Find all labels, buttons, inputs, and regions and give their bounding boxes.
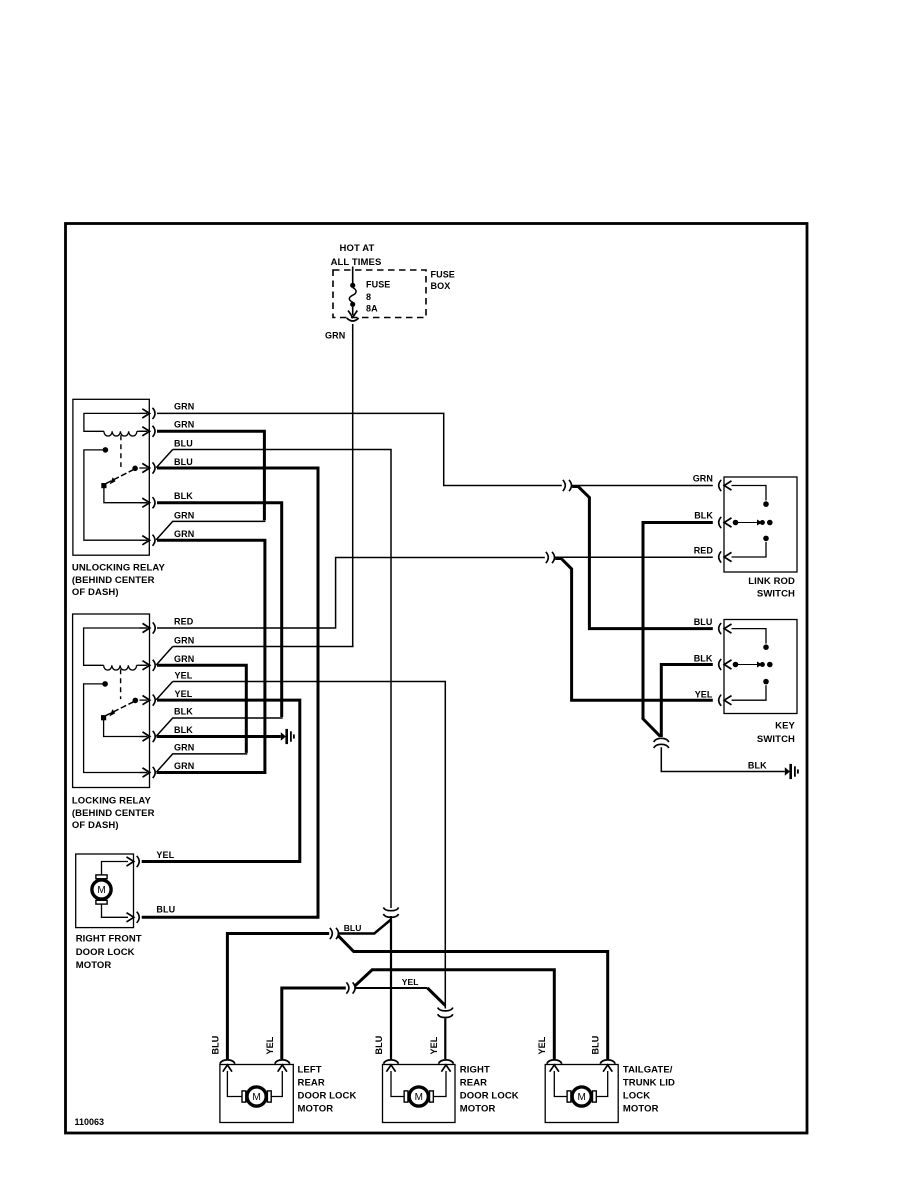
svg-text:DOOR LOCK: DOOR LOCK [460, 1091, 519, 1102]
svg-text:BLU: BLU [694, 617, 713, 627]
svg-text:GRN: GRN [325, 331, 345, 341]
svg-text:RED: RED [174, 616, 194, 626]
label GRN link rod [693, 474, 713, 484]
wire YEL connector C8 to tailgate motor (thick) [355, 970, 555, 1059]
wire RED lock pin1 to connector C2 [157, 558, 545, 629]
svg-text:FUSE: FUSE [431, 270, 455, 280]
wire BLK unlock pin4 to lock pin4 thin [156, 503, 283, 737]
wire BLU connector C5 to right rear motor [390, 916, 392, 1059]
svg-text:BLU: BLU [174, 438, 193, 448]
svg-text:BLK: BLK [748, 760, 767, 770]
label BLU key switch [694, 617, 713, 627]
label BLU right rear (vertical) [374, 1036, 384, 1055]
label BLK link rod [694, 511, 713, 521]
right rear door lock motor M3 [383, 1060, 456, 1123]
svg-text:BLK: BLK [174, 491, 193, 501]
svg-text:UNLOCKING RELAY: UNLOCKING RELAY [72, 563, 166, 574]
locking relay K2 [73, 614, 156, 788]
svg-text:M: M [97, 885, 105, 896]
svg-text:YEL: YEL [429, 1036, 439, 1054]
tailgate trunk lid lock motor M4 [545, 1060, 618, 1123]
connector C5 (vertical, BLU) [383, 907, 398, 917]
wire BLU unlock pin3 thin to rear motors [156, 450, 391, 909]
svg-text:GRN: GRN [174, 742, 194, 752]
wire YEL thin from connector C8 east [354, 987, 427, 989]
label GRN unlock pin2 [174, 419, 194, 429]
svg-text:HOT AT: HOT AT [340, 243, 375, 254]
left rear door lock motor M2 [220, 1060, 293, 1123]
wire BLK link rod switch to connector C3 [643, 523, 713, 737]
right front door lock motor M1 [76, 854, 140, 928]
svg-text:KEY: KEY [775, 721, 795, 732]
wire BLU unlock pin3 thick to right front motor [142, 468, 318, 917]
svg-text:TRUNK LID: TRUNK LID [623, 1078, 675, 1089]
svg-text:MOTOR: MOTOR [76, 960, 112, 971]
svg-text:YEL: YEL [175, 689, 193, 699]
svg-text:YEL: YEL [537, 1036, 547, 1054]
svg-text:8: 8 [366, 292, 371, 302]
svg-text:OF DASH): OF DASH) [72, 587, 119, 598]
svg-text:M: M [578, 1092, 586, 1103]
svg-text:BLK: BLK [694, 511, 713, 521]
border frame [66, 224, 808, 1134]
wire YEL lock pin3 thin to rear motors [156, 682, 445, 1009]
label BLU at connector C6 [344, 923, 362, 933]
label BLK key switch [694, 654, 713, 664]
label BLU left rear (vertical) [210, 1036, 220, 1055]
svg-text:BLU: BLU [210, 1036, 220, 1055]
connector C6 (BLU) [330, 928, 339, 939]
label YEL lock pin3 thick [175, 689, 193, 699]
svg-text:YEL: YEL [402, 977, 419, 987]
ground G2 [785, 764, 799, 779]
wire BLU connector C6 to tailgate motor (thick) [338, 935, 608, 1059]
svg-text:LOCK: LOCK [623, 1091, 650, 1102]
svg-text:ALL TIMES: ALL TIMES [331, 257, 382, 268]
svg-text:OF DASH): OF DASH) [72, 820, 119, 831]
label YEL key switch [695, 690, 713, 700]
label YEL right front motor [156, 850, 174, 860]
svg-text:MOTOR: MOTOR [298, 1103, 334, 1114]
svg-text:LINK ROD: LINK ROD [748, 576, 795, 587]
wire BLK lock pin4 thick to ground [157, 735, 281, 738]
svg-text:RIGHT: RIGHT [460, 1065, 490, 1076]
label LINK ROD SWITCH [748, 576, 795, 600]
label GRN unlock pin5 thin [174, 510, 194, 520]
connector C8 (YEL) [346, 982, 355, 993]
link rod switch S1 [719, 477, 797, 572]
svg-text:REAR: REAR [298, 1078, 325, 1089]
svg-text:YEL: YEL [175, 670, 193, 680]
wire YEL lock pin3 thick to right front motor [142, 700, 300, 861]
connector C3 (vertical, BLK) [654, 738, 669, 748]
svg-text:YEL: YEL [156, 850, 174, 860]
label HOT AT ALL TIMES [331, 243, 382, 268]
label FUSE BOX [431, 270, 455, 292]
wire hot feed into fuse [352, 267, 354, 284]
label BLU right front motor [156, 905, 175, 915]
label RIGHT FRONT DOOR LOCK MOTOR [76, 934, 142, 972]
svg-text:GRN: GRN [174, 654, 194, 664]
label BLU tailgate (vertical) [591, 1036, 601, 1055]
wire BLK key switch to connector C3 [661, 665, 713, 738]
label RED lock pin1 [174, 616, 194, 626]
svg-text:LOCKING RELAY: LOCKING RELAY [72, 796, 152, 807]
svg-text:RIGHT FRONT: RIGHT FRONT [76, 934, 142, 945]
svg-text:GRN: GRN [174, 529, 194, 539]
svg-text:BLU: BLU [174, 457, 193, 467]
svg-text:MOTOR: MOTOR [623, 1103, 659, 1114]
label GRN lock pin2 thin [174, 635, 194, 645]
label BLU unlock pin3 thick [174, 457, 193, 467]
fuse output arrow [348, 307, 357, 318]
label LEFT REAR DOOR LOCK MOTOR [298, 1065, 357, 1115]
svg-text:BLK: BLK [174, 706, 193, 716]
fuse box (dashed) [333, 270, 426, 318]
svg-text:BLK: BLK [174, 725, 193, 735]
key switch S2 [719, 620, 797, 714]
wire YEL connector C7 to right rear motor [444, 1019, 446, 1060]
wire BLU connector C6 to left rear motor [227, 934, 329, 1060]
connector C1 [563, 480, 572, 491]
wire BLU branch to connector C6 [338, 920, 391, 934]
svg-text:GRN: GRN [174, 761, 194, 771]
label GRN lock pin5 thin [174, 742, 194, 752]
connector at fuse box exit [347, 318, 359, 321]
svg-text:BLU: BLU [374, 1036, 384, 1055]
unlocking relay K1 [73, 399, 155, 555]
label RIGHT REAR DOOR LOCK MOTOR [460, 1065, 519, 1115]
wire GRN unlock pin1 to connector C1 [157, 413, 562, 485]
label YEL lock pin3 thin [175, 670, 193, 680]
svg-text:M: M [415, 1092, 423, 1103]
label YEL right rear (vertical) [429, 1036, 439, 1054]
label RED link rod [694, 545, 714, 555]
svg-text:DOOR LOCK: DOOR LOCK [76, 947, 135, 958]
svg-text:LEFT: LEFT [298, 1065, 322, 1076]
label YEL tailgate (vertical) [537, 1036, 547, 1054]
label YEL at connector C8 [402, 977, 419, 987]
label BLK lock pin4 thick [174, 725, 193, 735]
label GRN lock pin5 thick [174, 761, 194, 771]
label BLU unlock pin3 thin [174, 438, 193, 448]
svg-text:(BEHIND CENTER: (BEHIND CENTER [72, 575, 155, 586]
svg-text:MOTOR: MOTOR [460, 1103, 496, 1114]
wire GRN unlock pin5 thick to lock pin5 thick [157, 540, 265, 772]
svg-text:RED: RED [694, 545, 714, 555]
svg-text:GRN: GRN [174, 510, 194, 520]
wire GRN lock pin2 thick to lock pin5 thin [156, 665, 247, 772]
svg-text:SWITCH: SWITCH [757, 734, 795, 745]
wire BLK connector C3 to ground G2 [661, 747, 785, 771]
svg-text:REAR: REAR [460, 1078, 487, 1089]
svg-text:YEL: YEL [695, 690, 713, 700]
svg-text:M: M [252, 1092, 260, 1103]
svg-text:BLU: BLU [156, 905, 175, 915]
connector C2 [546, 552, 555, 563]
label KEY SWITCH [757, 721, 796, 746]
svg-text:DOOR LOCK: DOOR LOCK [298, 1091, 357, 1102]
svg-text:GRN: GRN [174, 401, 194, 411]
svg-text:(BEHIND CENTER: (BEHIND CENTER [72, 808, 155, 819]
label GRN lock pin2 thick [174, 654, 194, 664]
label GRN fuse wire [325, 331, 345, 341]
label GRN unlock pin5 thick [174, 529, 194, 539]
svg-text:TAILGATE/: TAILGATE/ [623, 1065, 673, 1076]
label GRN unlock pin1 [174, 401, 194, 411]
label BLK ground wire [748, 760, 767, 770]
svg-text:GRN: GRN [174, 635, 194, 645]
wire RED connector C2 to link rod switch [555, 556, 713, 558]
label BLK unlock pin4 [174, 491, 193, 501]
connector C7 (vertical, YEL) [438, 1008, 453, 1018]
drawing number 110063 [75, 1117, 105, 1127]
wire YEL diagonal into connector C8 [428, 988, 446, 1006]
wire YEL connector C8 to left rear motor [282, 988, 346, 1059]
label BLK lock pin4 thin [174, 706, 193, 716]
label LOCKING RELAY (BEHIND CENTER OF DASH) [72, 796, 155, 832]
wire GRN unlock pin2 to unlock pin5 thin [156, 431, 265, 539]
svg-text:8A: 8A [366, 304, 378, 314]
svg-text:BOX: BOX [431, 281, 451, 291]
svg-text:YEL: YEL [265, 1036, 275, 1054]
fuse FUSE 8 8A [349, 280, 390, 314]
wire YEL connector C2 to key switch (thick branch) [555, 559, 713, 701]
label UNLOCKING RELAY (BEHIND CENTER OF DASH) [72, 563, 166, 599]
svg-text:110063: 110063 [75, 1117, 105, 1127]
svg-text:GRN: GRN [174, 419, 194, 429]
svg-text:GRN: GRN [693, 474, 713, 484]
label TAILGATE TRUNK LID LOCK MOTOR [623, 1065, 675, 1115]
svg-text:BLK: BLK [694, 654, 713, 664]
wire GRN connector C1 to link rod switch [572, 485, 713, 487]
wire BLU connector C1 to key switch (thick branch) [572, 487, 713, 629]
ground G1 [281, 729, 295, 744]
wire GRN fuse to locking relay pin2 thin [156, 324, 353, 665]
svg-text:BLU: BLU [344, 923, 362, 933]
svg-text:BLU: BLU [591, 1036, 601, 1055]
svg-text:FUSE: FUSE [366, 280, 390, 290]
svg-text:SWITCH: SWITCH [757, 589, 795, 600]
label YEL left rear (vertical) [265, 1036, 275, 1054]
